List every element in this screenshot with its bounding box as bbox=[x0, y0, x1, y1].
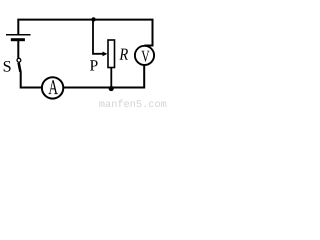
wire: left riser + top wire + right riser with jog toward voltmeter bbox=[18, 20, 152, 46]
wire: rheostat bottom to bottom wire bbox=[110, 68, 112, 88]
wire: battery to switch bbox=[17, 41, 19, 59]
switch S pivot circle bbox=[17, 58, 21, 62]
ammeter letter A bbox=[49, 80, 58, 94]
battery short thick plate (-) bbox=[11, 38, 25, 41]
label P bbox=[90, 60, 98, 70]
switch S blade (open) bbox=[19, 63, 21, 72]
voltmeter V circle bbox=[135, 46, 154, 65]
wiper arrowhead bbox=[103, 52, 108, 57]
rheostat R body bbox=[108, 40, 115, 68]
voltmeter letter V bbox=[141, 51, 149, 62]
label R bbox=[119, 49, 128, 60]
label S bbox=[4, 61, 11, 72]
wire: wiper feed from junction down then right bbox=[93, 19, 103, 53]
wire: bottom wire from ammeter to right corner up to voltmeter bottom bbox=[64, 66, 144, 88]
watermark manfen5.com bbox=[99, 101, 104, 107]
node: junction dot on bottom wire bbox=[109, 86, 114, 91]
node: junction dot on top wire bbox=[91, 17, 95, 21]
ammeter A circle bbox=[42, 77, 63, 98]
battery long plate (+) bbox=[6, 34, 31, 36]
wire: switch to bottom-left corner to ammeter bbox=[21, 72, 42, 88]
